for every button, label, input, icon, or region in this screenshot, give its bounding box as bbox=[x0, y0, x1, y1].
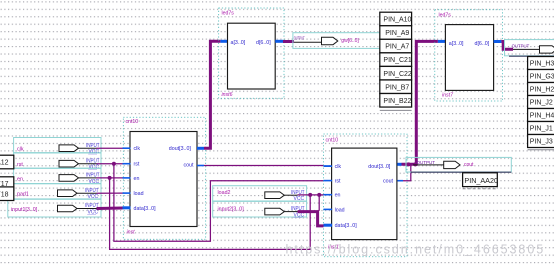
bus to output gw bbox=[283, 40, 294, 43]
input pin load2 symbol bbox=[265, 190, 305, 202]
svg-text:inst: inst bbox=[127, 229, 136, 235]
wire en to cnt10#1 bbox=[97, 177, 123, 179]
output cout symbol bbox=[413, 160, 460, 169]
underline below column A bbox=[380, 109, 412, 111]
input pin input1[3..0] selection box bbox=[8, 199, 101, 217]
svg-text:led7s: led7s bbox=[439, 12, 452, 18]
bus d stub led7s#2 bbox=[494, 40, 502, 43]
svg-text:PIN_Y18: PIN_Y18 bbox=[0, 191, 9, 198]
input pin pad1 symbol bbox=[58, 188, 100, 200]
bus dout1 stub bbox=[197, 147, 204, 150]
input pin clk symbol bbox=[59, 143, 100, 155]
svg-text:pad1: pad1 bbox=[17, 192, 29, 198]
wire input1[3..0] to cnt10#1 bbox=[97, 207, 123, 211]
pin box PIN_A9 bbox=[380, 26, 412, 40]
cnt10 inst1 body bbox=[332, 148, 397, 240]
wire rst to cnt10#1 bbox=[97, 163, 123, 165]
junction dot on load2 wire (en riser) bbox=[308, 193, 312, 197]
svg-text:gw[6..0]: gw[6..0] bbox=[341, 38, 359, 44]
input pin input2[3..0] selection box bbox=[213, 201, 307, 217]
pin box PIN_B22 bbox=[380, 94, 412, 108]
svg-text:inst7: inst7 bbox=[442, 92, 454, 98]
bus d stub led7s#1 bbox=[275, 40, 283, 43]
wire stub cnt10#2 clk bbox=[324, 165, 332, 167]
cnt10 inst1 data stub bbox=[324, 224, 333, 227]
svg-text:en: en bbox=[17, 176, 23, 182]
svg-text:data[3..0]: data[3..0] bbox=[134, 206, 157, 212]
svg-text:clk: clk bbox=[335, 164, 342, 170]
svg-text:PIN_A9: PIN_A9 bbox=[385, 30, 409, 37]
pin box PIN_J1 bbox=[528, 122, 554, 135]
svg-text:PIN_H3: PIN_H3 bbox=[530, 61, 554, 68]
bus dout2 to led7s#2 a bbox=[402, 41, 438, 164]
pin box PIN_C22 bbox=[380, 66, 412, 80]
cnt10 inst port stubs bbox=[123, 148, 131, 193]
svg-text:cnt10: cnt10 bbox=[326, 137, 339, 143]
bus stub into led7s#1 a bbox=[220, 40, 228, 43]
input pin input1[3..0] symbol bbox=[58, 203, 100, 215]
svg-text:PIN_B22: PIN_B22 bbox=[383, 98, 411, 105]
wire cout2 stub bbox=[397, 180, 403, 182]
svg-text:cout: cout bbox=[184, 163, 195, 169]
pin box PIN_H3 bbox=[528, 57, 554, 70]
svg-text:clk: clk bbox=[134, 146, 141, 152]
input pin load2 selection box bbox=[213, 186, 307, 201]
svg-text:clk: clk bbox=[17, 146, 24, 152]
svg-text:OUTPUT: OUTPUT bbox=[417, 160, 436, 165]
underline below column B bbox=[528, 149, 554, 151]
cnt10 inst data stub bbox=[123, 206, 131, 209]
cnt10 inst1 port labels bbox=[335, 164, 394, 229]
svg-text:en: en bbox=[134, 176, 140, 182]
pin box PIN_Y17 (cut) bbox=[0, 177, 14, 191]
svg-text:data[3..0]: data[3..0] bbox=[335, 223, 358, 229]
pin box PIN_G3 bbox=[528, 70, 554, 83]
svg-text:PIN_C22: PIN_C22 bbox=[383, 71, 412, 78]
svg-text:OUTPUT: OUTPUT bbox=[294, 35, 305, 40]
svg-text:PIN_A12: PIN_A12 bbox=[0, 160, 9, 167]
cnt10 inst body bbox=[130, 132, 197, 227]
wire en down-right to riser bbox=[110, 178, 311, 250]
wire cout1 to cnt10#2 clk bbox=[204, 165, 324, 167]
svg-text:led7s: led7s bbox=[222, 11, 235, 17]
junction en branch bbox=[108, 176, 112, 180]
led7s inst7 selection box bbox=[435, 10, 503, 101]
pin box PIN_AA20 bbox=[463, 173, 498, 189]
cnt10 inst selection box bbox=[123, 117, 205, 239]
svg-text:PIN_H2: PIN_H2 bbox=[530, 87, 554, 94]
svg-text:input2[3..0]: input2[3..0] bbox=[218, 207, 245, 213]
riser load2 wire to input2 bus bbox=[318, 195, 320, 211]
svg-text:en: en bbox=[335, 193, 341, 199]
svg-text:load2: load2 bbox=[218, 190, 231, 196]
svg-text:cout: cout bbox=[383, 179, 394, 185]
cnt10 inst port labels bbox=[134, 146, 195, 212]
pin box PIN_A12 (cut) bbox=[0, 155, 14, 169]
svg-text:dout[3..0]: dout[3..0] bbox=[169, 146, 192, 152]
svg-text:dout[3..0]: dout[3..0] bbox=[368, 164, 391, 170]
input pin rst symbol bbox=[59, 158, 100, 170]
svg-text:PIN_J3: PIN_J3 bbox=[530, 139, 553, 146]
svg-text:rst: rst bbox=[134, 162, 140, 168]
pin box PIN_H2 bbox=[528, 83, 554, 96]
pin box PIN_A10 bbox=[380, 12, 412, 26]
svg-text:https://blog.csdn.net/m0_46653: https://blog.csdn.net/m0_46653805 bbox=[286, 243, 546, 257]
bus dout1 to led7s#1 a bbox=[204, 41, 220, 148]
cnt10 inst1 selection box bbox=[324, 134, 408, 257]
svg-text:load: load bbox=[335, 207, 345, 213]
wire cout1 stub bbox=[197, 165, 204, 167]
pin box PIN_J2 bbox=[528, 96, 554, 109]
svg-text:PIN_B7: PIN_B7 bbox=[385, 84, 409, 91]
svg-text:PIN_G3: PIN_G3 bbox=[530, 74, 554, 81]
cnt10 inst1 port stubs bbox=[324, 166, 333, 209]
wire rst down-right-up to cnt10#2 rst bbox=[114, 164, 324, 242]
svg-text:PIN_J1: PIN_J1 bbox=[530, 126, 553, 133]
bus stub into led7s#2 a bbox=[438, 40, 446, 43]
svg-text:OUTPUT: OUTPUT bbox=[512, 43, 530, 48]
input pin en symbol bbox=[59, 173, 100, 185]
svg-text:d[6..0]: d[6..0] bbox=[475, 41, 490, 47]
svg-text:rst: rst bbox=[17, 162, 23, 168]
svg-text:PIN_A7: PIN_A7 bbox=[385, 44, 409, 51]
junction dot dout2 a bbox=[407, 162, 411, 166]
svg-text:PIN_C21: PIN_C21 bbox=[383, 57, 412, 64]
junction dot on load2 wire bbox=[317, 193, 321, 197]
pin box PIN_H4 bbox=[528, 109, 554, 122]
led7s inst6 selection box bbox=[219, 8, 284, 98]
output gw selection box bbox=[293, 33, 381, 49]
junction rst branch bbox=[112, 162, 116, 166]
svg-text:a[3..0]: a[3..0] bbox=[231, 40, 246, 46]
pin box PIN_J3 bbox=[528, 135, 554, 148]
pin box PIN_A7 bbox=[380, 39, 412, 53]
svg-text:cout: cout bbox=[464, 162, 474, 168]
input pin pad1 selection box bbox=[14, 184, 101, 199]
output gw symbol bbox=[294, 35, 338, 44]
svg-text:rst: rst bbox=[335, 179, 341, 185]
bus to output 2 bbox=[501, 42, 513, 50]
svg-text:d[6..0]: d[6..0] bbox=[256, 40, 271, 46]
wire load2 to cnt10#2 en bbox=[298, 194, 324, 196]
pin box PIN_Y18 (cut) bbox=[0, 187, 14, 201]
svg-text:cnt10: cnt10 bbox=[126, 119, 139, 125]
bus input2 to cnt10#2 data bbox=[298, 212, 324, 226]
svg-text:a[3..0]: a[3..0] bbox=[449, 41, 464, 47]
led7s inst6 body bbox=[228, 23, 276, 89]
output2 symbol bbox=[512, 43, 554, 53]
pin box PIN_B7 bbox=[380, 80, 412, 94]
wire cout2 to output cout bbox=[403, 165, 411, 181]
svg-text:PIN_A10: PIN_A10 bbox=[383, 17, 411, 24]
output2 selection box bbox=[505, 40, 554, 57]
svg-text:PIN_J2: PIN_J2 bbox=[530, 100, 553, 107]
svg-text:PIN_AA20: PIN_AA20 bbox=[464, 176, 498, 185]
junction dot dout2 b bbox=[413, 162, 417, 166]
svg-text:inst6: inst6 bbox=[222, 92, 233, 98]
wire clk to cnt10#1 bbox=[97, 147, 123, 149]
pin box PIN_C21 bbox=[380, 53, 412, 67]
bus dout2 stub bbox=[397, 163, 401, 166]
input pin rst selection box bbox=[14, 153, 101, 168]
input pin input2[3..0] symbol bbox=[265, 206, 305, 218]
wire pad1 to cnt10#1 bbox=[97, 192, 123, 194]
svg-text:load: load bbox=[134, 191, 144, 197]
svg-text:input1[3..0]: input1[3..0] bbox=[11, 207, 38, 213]
input pin en selection box bbox=[14, 168, 101, 183]
svg-text:PIN_H4: PIN_H4 bbox=[530, 113, 554, 120]
led7s inst7 body bbox=[445, 25, 493, 91]
output cout selection box bbox=[406, 157, 511, 172]
input pin clk selection box bbox=[14, 138, 101, 153]
